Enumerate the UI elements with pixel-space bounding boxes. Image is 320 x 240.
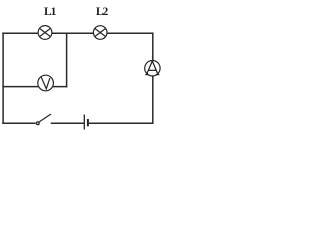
- switch S: [36, 114, 51, 125]
- wire bottom left segment: [3, 122, 35, 124]
- ammeter letter A crossbar: [148, 69, 156, 71]
- voltmeter V: [38, 75, 54, 91]
- ammeter letter A left foot serif: [145, 74, 148, 76]
- battery long plate: [83, 115, 85, 130]
- ammeter letter A left leg: [147, 61, 153, 75]
- svg-text:L2: L2: [96, 6, 109, 18]
- wire right vertical: [152, 33, 154, 123]
- lamp L2: [93, 26, 107, 40]
- battery cell: [84, 115, 88, 130]
- svg-text:L1: L1: [44, 6, 57, 18]
- wire left vertical: [2, 33, 4, 123]
- ammeter A: [145, 60, 160, 75]
- wire bottom right segment: [89, 122, 152, 124]
- ammeter letter A right leg: [152, 61, 158, 75]
- battery short plate: [87, 119, 89, 126]
- wire voltmeter branch horizontal: [3, 86, 67, 88]
- wire top horizontal: [3, 32, 153, 34]
- lamp L1: [38, 26, 52, 40]
- wire bottom middle segment: [52, 122, 84, 124]
- wire voltmeter branch vertical: [66, 33, 68, 86]
- ammeter letter A right foot serif: [156, 74, 159, 76]
